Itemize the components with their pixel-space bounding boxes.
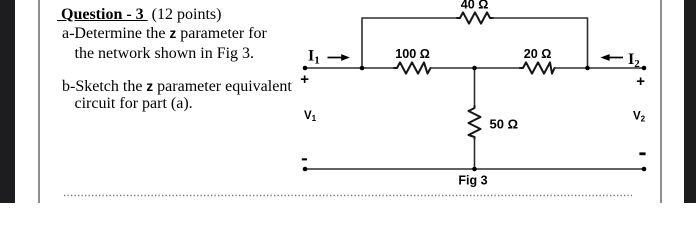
svg-text:I2: I2 — [628, 51, 640, 70]
node C junction dot — [585, 66, 590, 71]
node B junction dot — [472, 66, 477, 71]
node port1 bottom terminal dot — [303, 167, 308, 172]
svg-text:40 Ω: 40 Ω — [461, 0, 489, 12]
svg-text:+: + — [300, 71, 309, 88]
minus sign port2 — [639, 152, 645, 155]
resistor R 50ohm vertical zigzag — [469, 106, 481, 139]
wire top branch left riser — [362, 18, 457, 68]
svg-text:V1: V1 — [304, 110, 317, 123]
label 50 ohm — [490, 116, 519, 131]
svg-text:50 Ω: 50 Ω — [490, 116, 519, 131]
svg-text:+: + — [636, 73, 645, 90]
wire top branch right riser — [493, 18, 588, 68]
plus sign port1 — [300, 71, 309, 88]
svg-text:100 Ω: 100 Ω — [395, 47, 430, 61]
svg-text:Fig 3: Fig 3 — [458, 174, 487, 188]
resistor R 100ohm zigzag — [394, 62, 431, 73]
label 40 ohm — [461, 0, 489, 12]
arrow I2 direction left — [600, 54, 623, 61]
label V1 port voltage — [304, 110, 317, 123]
plus sign port2 — [636, 73, 645, 90]
wire bottom rail — [305, 168, 644, 170]
wire 50ohm to bottom — [474, 139, 476, 169]
minus sign port1 — [302, 158, 307, 160]
label Fig 3 — [458, 174, 487, 188]
node port2 bottom terminal dot — [642, 167, 647, 172]
svg-text:V2: V2 — [633, 110, 646, 123]
resistor R 40ohm zigzag — [457, 12, 493, 23]
wire port1 to node A — [305, 67, 394, 69]
label I2 current — [628, 51, 640, 70]
node port1 top terminal dot — [303, 66, 308, 71]
dotted separator line — [64, 194, 638, 197]
svg-text:20 Ω: 20 Ω — [524, 47, 552, 61]
right page-edge black bar (decorative) — [684, 0, 696, 203]
label 100 ohm — [395, 47, 430, 61]
wire node B down to 50ohm — [474, 68, 476, 106]
node bottom-center junction dot — [472, 167, 477, 172]
label I1 current — [308, 48, 320, 67]
wire node B to 20ohm — [431, 67, 521, 69]
left page-edge black bar (decorative) — [0, 0, 15, 203]
svg-text:I1: I1 — [308, 48, 320, 67]
label 20 ohm — [524, 47, 552, 61]
wire 20ohm to port2 — [555, 67, 645, 69]
arrow I1 direction right — [328, 54, 350, 61]
node port2 top terminal dot — [642, 66, 647, 71]
resistor R 20ohm zigzag — [520, 62, 555, 73]
label V2 port voltage — [633, 110, 646, 123]
node A junction dot — [360, 66, 365, 71]
